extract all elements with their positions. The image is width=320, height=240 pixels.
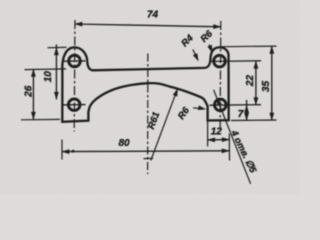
leader R6 top: [209, 45, 211, 52]
extension right 80/12: [228, 134, 230, 161]
centerline vertical left holes / 74 extension: [73, 20, 76, 132]
centerline horizontal hole top-left: [64, 60, 86, 62]
hole bottom-right: [215, 99, 227, 111]
extension 35 top (lobe tangent): [222, 45, 277, 48]
extension 35 bottom (bottom edge): [231, 119, 277, 122]
extension 26 bottom: [21, 118, 60, 120]
hole top-left: [69, 55, 81, 67]
leader 4 holes note: [214, 90, 251, 184]
extension 26 top: [25, 68, 67, 71]
hole bottom-left: [68, 99, 80, 111]
centerline vertical middle: [147, 54, 149, 175]
centerline horizontal hole bottom-left: [64, 104, 86, 106]
extension left 80: [61, 140, 63, 160]
extension 10 top (lobe tangent): [48, 46, 67, 48]
dimension 74 line: [75, 24, 221, 27]
leader R61: [151, 91, 177, 161]
leader R4: [193, 50, 198, 60]
dimension 7 line: [246, 100, 248, 120]
part outline: [62, 47, 228, 121]
dimension 22 line: [255, 61, 257, 105]
centerline vertical right holes / 74 extension: [219, 21, 222, 132]
extension 12 left: [207, 122, 209, 147]
centerline horizontal hole bottom-right / 22 extension: [210, 104, 262, 107]
dimension 26 line: [32, 69, 34, 119]
dimension 35 line: [271, 46, 273, 120]
dimension 10 line: [55, 45, 57, 100]
junction dot on 80 line: [72, 150, 75, 153]
hole top-right: [214, 55, 226, 67]
dimension 80 line: [62, 150, 229, 153]
center cross tick R61: [144, 157, 154, 159]
leader R6 middle: [193, 108, 204, 109]
centerline horizontal hole top-right / 22 extension: [210, 60, 262, 63]
dimension 12 line: [208, 139, 230, 141]
